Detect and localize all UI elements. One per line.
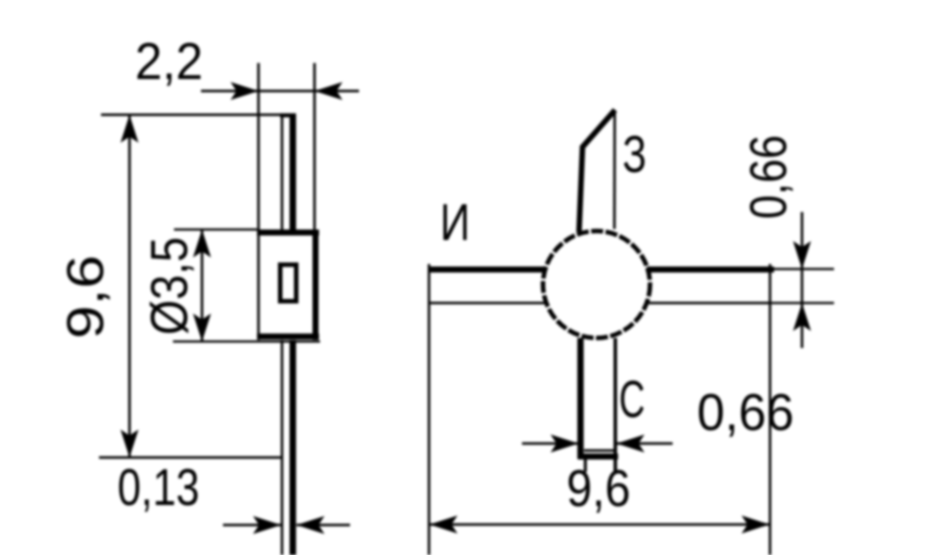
right lead bottom edge thin [647, 302, 771, 305]
body top edge [257, 230, 319, 236]
extension line 9,6 bottom [99, 456, 283, 459]
gate lead right edge thin [613, 110, 616, 229]
lead right thick line upper [290, 115, 297, 232]
drain lead thin cap [584, 449, 614, 452]
svg-text:2,2: 2,2 [135, 33, 203, 91]
gate lead bent outline thick [579, 110, 615, 232]
extension line 0,66 bottom [771, 302, 834, 304]
dimension line 0,66 vertical [801, 212, 804, 348]
dimension line 2,2 [201, 90, 359, 93]
lead left thin line upper [281, 115, 284, 232]
svg-text:9,6: 9,6 [567, 460, 631, 518]
extension line 3,5 bottom [173, 340, 320, 342]
arrow drain width left (points right) [551, 435, 579, 453]
arrow 0,13 right (points left) [297, 516, 325, 534]
dimension line 0,13 left part [223, 524, 281, 527]
body circle [543, 231, 650, 338]
arrow 2,2 left (points right) [231, 82, 259, 100]
body bottom edge [257, 334, 319, 340]
extension line 3,5 top [174, 228, 257, 230]
drain lead left stub below cap [584, 460, 587, 473]
lead right thick line lower [290, 340, 297, 555]
arrow 0,13 left (points right) [253, 516, 281, 534]
arrow 0,66 bottom (points up) [793, 303, 811, 331]
drain lead left edge thick [577, 338, 583, 459]
arrow 2,2 right (points left) [315, 82, 343, 100]
dimension line 0,13 right part [297, 524, 351, 527]
dimension line drain lead width right part [617, 442, 673, 445]
arrow 9,6 bottom right (points right) [742, 516, 770, 534]
svg-text:0,13: 0,13 [118, 459, 200, 517]
dimension line diameter 3,5 [201, 230, 204, 342]
extension line left end (source lead) [428, 264, 431, 555]
svg-text:Ø3,5: Ø3,5 [141, 237, 199, 335]
drain lead thick cap [578, 454, 618, 460]
svg-text:9,6: 9,6 [57, 255, 115, 339]
svg-text:С: С [619, 371, 645, 429]
dimension line 9,6 vertical [128, 115, 131, 458]
svg-text:И: И [440, 194, 470, 252]
body inner window rectangle [280, 265, 296, 302]
dimension line 9,6 bottom [429, 523, 770, 526]
body right edge thick [313, 231, 319, 340]
drain lead right edge thin [614, 338, 618, 471]
svg-text:0,66: 0,66 [697, 384, 794, 442]
extension line left of 2,2 / body left edge [257, 63, 260, 340]
arrow 9,6 top (points up) [121, 115, 139, 143]
source lead bottom edge thin [429, 302, 548, 305]
source lead top edge thick [429, 267, 547, 273]
extension line right end [769, 264, 772, 555]
arrow 9,6 bottom left (points left) [430, 516, 458, 534]
dimension line drain lead width left part [522, 442, 578, 445]
arrow 3,5 top (points up) [193, 230, 211, 258]
arrow 0,66 top (points down) [793, 241, 811, 269]
extension line 9,6 top [101, 114, 281, 117]
lead left thin line lower [281, 340, 284, 555]
drain-side right lead top edge thick [647, 267, 774, 273]
extension line right of 2,2 [313, 63, 316, 231]
svg-text:0,66: 0,66 [740, 135, 798, 219]
svg-text:З: З [623, 126, 647, 184]
lead top cap [280, 113, 296, 117]
extension line 0,66 top [771, 268, 834, 270]
arrow 3,5 bottom (points down) [193, 314, 211, 342]
arrow 9,6 bottom (points down) [121, 430, 139, 458]
arrow drain width right (points left) [617, 435, 645, 453]
